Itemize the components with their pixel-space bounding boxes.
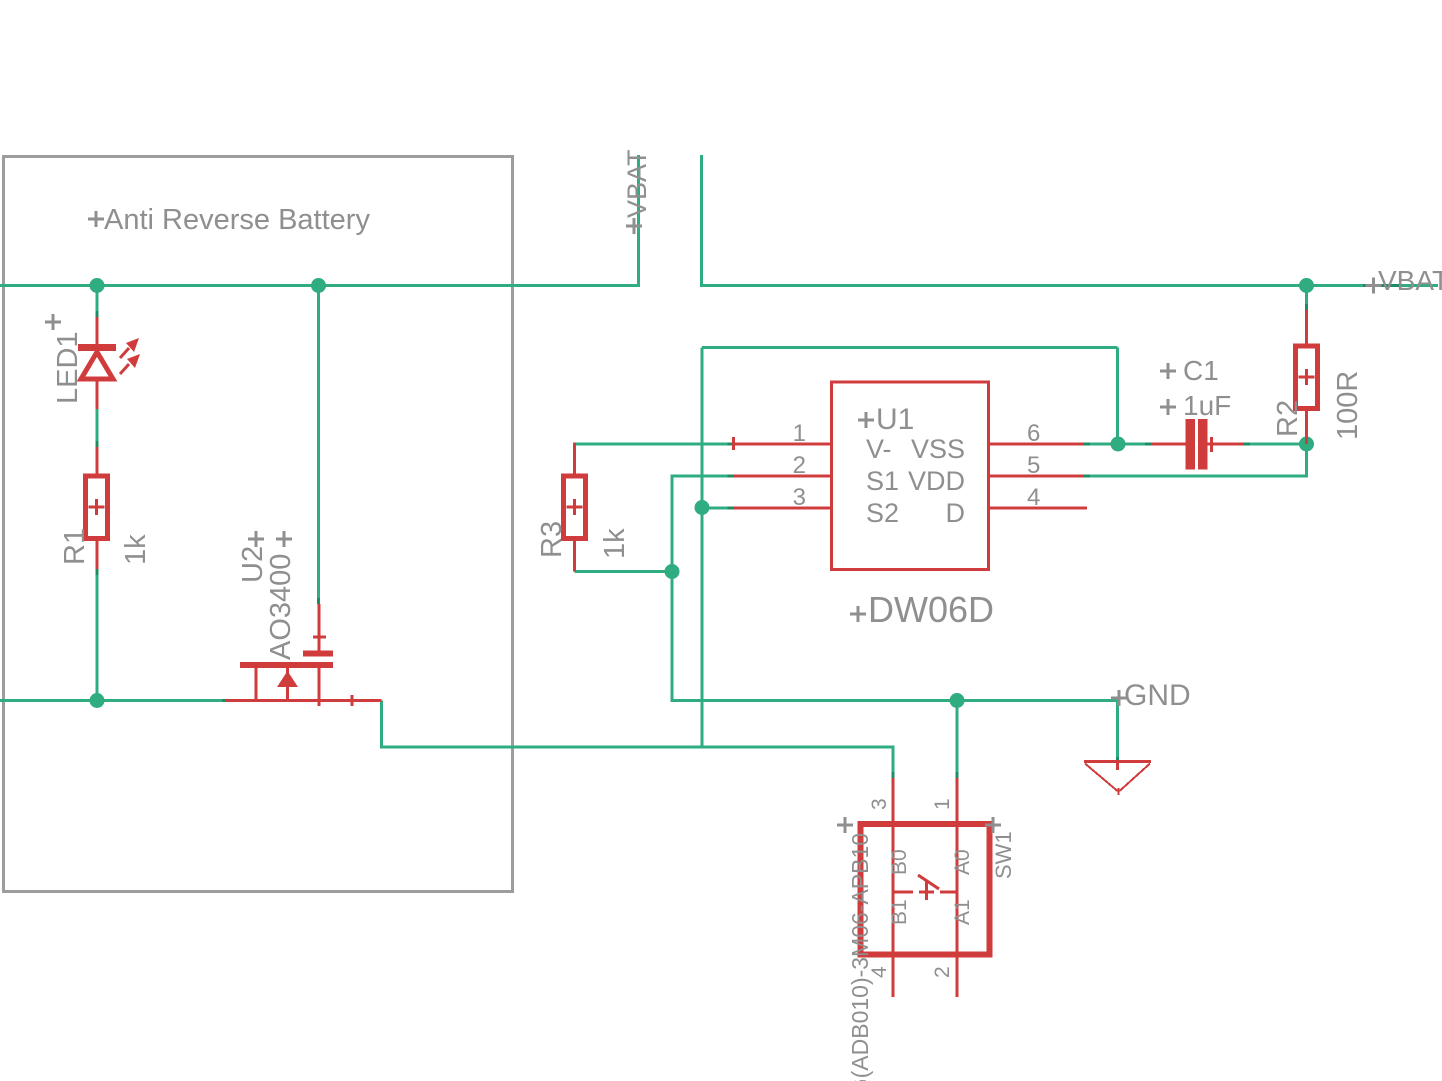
svg-text:6: 6: [1027, 420, 1040, 447]
svg-text:4: 4: [868, 966, 891, 978]
svg-text:3: 3: [868, 798, 891, 810]
svg-text:1: 1: [931, 798, 954, 810]
svg-text:S1: S1: [866, 466, 899, 496]
svg-text:B1: B1: [888, 899, 911, 925]
svg-text:MSKQG(ADB010)-3M06-APB10: MSKQG(ADB010)-3M06-APB10: [847, 833, 873, 1081]
svg-text:R1: R1: [59, 528, 91, 565]
svg-text:S2: S2: [866, 498, 899, 528]
svg-text:VBAT: VBAT: [1378, 265, 1442, 296]
svg-text:3: 3: [793, 484, 806, 511]
svg-text:2: 2: [793, 452, 806, 479]
svg-text:LED1: LED1: [52, 331, 84, 404]
svg-text:VDD: VDD: [908, 466, 965, 496]
svg-text:AO3400: AO3400: [265, 554, 297, 660]
svg-text:Anti Reverse Battery: Anti Reverse Battery: [104, 204, 370, 236]
svg-text:C1: C1: [1183, 355, 1219, 386]
svg-text:VSS: VSS: [911, 434, 965, 464]
svg-text:1k: 1k: [120, 534, 152, 565]
svg-text:5: 5: [1027, 452, 1040, 479]
svg-text:2: 2: [931, 966, 954, 978]
svg-text:SW1: SW1: [991, 831, 1016, 879]
svg-text:VBAT: VBAT: [622, 149, 652, 218]
svg-text:100R: 100R: [1332, 371, 1364, 440]
svg-text:V-: V-: [866, 434, 892, 464]
svg-text:B0: B0: [888, 849, 911, 875]
svg-text:D: D: [946, 498, 966, 528]
svg-text:A1: A1: [951, 899, 974, 925]
svg-text:R2: R2: [1272, 400, 1304, 437]
svg-text:4: 4: [1027, 484, 1040, 511]
svg-text:A0: A0: [951, 849, 974, 875]
svg-text:1: 1: [793, 420, 806, 447]
svg-text:DW06D: DW06D: [868, 589, 994, 630]
svg-text:GND: GND: [1124, 679, 1191, 712]
svg-text:1k: 1k: [599, 528, 631, 559]
svg-text:1uF: 1uF: [1183, 390, 1231, 421]
svg-text:U1: U1: [876, 403, 914, 436]
svg-text:R3: R3: [536, 521, 568, 558]
